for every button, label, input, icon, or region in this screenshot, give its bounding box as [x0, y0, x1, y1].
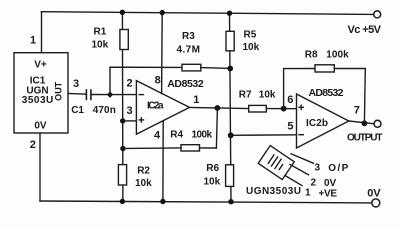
svg-text:OUTPUT: OUTPUT: [347, 132, 383, 143]
svg-text:3503U: 3503U: [22, 95, 54, 106]
junction dot pin4 rail: [160, 199, 165, 204]
resistor R6: [226, 165, 234, 187]
wire pin4 to 0V rail: [162, 121, 164, 202]
svg-text:0V: 0V: [34, 121, 47, 132]
svg-text:2: 2: [311, 178, 317, 189]
wire R4 right: [200, 147, 217, 149]
junction dot IC2a +input node: [120, 118, 125, 123]
terminal OUTPUT: [374, 120, 381, 127]
op-amp IC2b: [297, 94, 349, 148]
svg-text:5: 5: [287, 121, 293, 133]
junction dot R1 top rail: [120, 10, 125, 15]
capacitor C1: [86, 89, 91, 100]
svg-text:470n: 470n: [93, 105, 116, 116]
svg-text:R3: R3: [182, 31, 195, 42]
terminal 0V: [372, 199, 380, 207]
sensor package UGN3503U inset: [258, 146, 294, 180]
svg-text:UGN3503U: UGN3503U: [246, 186, 301, 197]
junction dot output R8: [362, 120, 368, 126]
resistor R5: [226, 31, 234, 51]
wire R8 right leg: [334, 69, 365, 124]
svg-text:C1: C1: [71, 105, 84, 116]
svg-text:1: 1: [305, 188, 311, 199]
lead pin1 +VE: [285, 176, 302, 186]
wire IC1 pin1 to +5V rail: [41, 12, 43, 53]
svg-text:0V: 0V: [367, 187, 381, 199]
wire bottom 0V rail: [40, 201, 371, 203]
wire IC2b output to terminal: [349, 121, 374, 124]
resistor R7: [249, 105, 267, 112]
junction dot pin6 node: [281, 106, 287, 112]
wire divider to IC2a pin3: [123, 120, 137, 122]
junction dot R5 top rail: [227, 11, 232, 16]
svg-text:10k: 10k: [135, 178, 152, 189]
svg-text:R5: R5: [244, 29, 257, 40]
svg-text:8: 8: [155, 74, 161, 86]
svg-text:O/P: O/P: [328, 163, 348, 174]
svg-text:R6: R6: [206, 163, 219, 174]
svg-text:100k: 100k: [192, 130, 213, 141]
wire R4 left to divider: [123, 147, 181, 150]
resistor R1: [120, 30, 128, 50]
wire R3 right to bias vertical: [201, 67, 231, 70]
wire R8 left leg: [284, 69, 315, 109]
svg-text:AD8532: AD8532: [167, 78, 204, 90]
svg-text:3: 3: [73, 78, 79, 90]
svg-text:IC2b: IC2b: [306, 118, 328, 129]
wire top +5V rail: [42, 12, 374, 15]
junction dot R2 bottom rail: [120, 199, 125, 204]
wire R5-R6 bias vertical: [230, 13, 232, 202]
svg-text:+VE: +VE: [319, 188, 338, 199]
svg-text:10k: 10k: [243, 42, 260, 53]
svg-text:7: 7: [354, 105, 360, 117]
junction dot pin8 rail: [160, 10, 165, 15]
svg-text:R1: R1: [94, 26, 107, 37]
svg-text:R4: R4: [170, 130, 183, 141]
wire IC2a output to R7: [190, 107, 249, 108]
wire IC1 pin2 to 0V rail: [39, 133, 41, 201]
svg-text:1: 1: [30, 35, 36, 47]
junction dot R3-bias node: [227, 66, 233, 72]
junction dot pin5-bias node: [228, 132, 234, 138]
wire node A to IC2a pin2: [110, 94, 136, 96]
op-amp IC2a: [136, 81, 189, 135]
svg-text:4.7M: 4.7M: [177, 44, 201, 55]
lead pin3 O/P: [291, 154, 314, 164]
junction dot R6 bottom rail: [228, 199, 233, 204]
svg-text:100k: 100k: [326, 50, 349, 61]
svg-text:10k: 10k: [204, 177, 221, 188]
svg-text:V+: V+: [34, 60, 47, 71]
wire R7 right to IC2b pin6: [266, 108, 296, 110]
svg-text:1: 1: [193, 94, 199, 106]
wire pin8 to +5V rail: [161, 13, 164, 94]
IC1 UGN3503U sensor box: [14, 53, 68, 133]
wire IC1 pin3 to C1: [68, 92, 86, 95]
svg-text:10k: 10k: [259, 90, 276, 101]
svg-text:3: 3: [315, 163, 321, 174]
resistor R8: [315, 65, 334, 72]
junction dot R4 tap on divider: [120, 146, 125, 151]
junction dot output R4 tap: [215, 105, 221, 111]
svg-text:AD8532: AD8532: [309, 87, 344, 99]
wire R1-R2 divider vertical: [121, 12, 124, 201]
svg-text:2: 2: [127, 78, 133, 90]
svg-text:OUT: OUT: [54, 81, 64, 101]
svg-text:R2: R2: [137, 165, 150, 176]
svg-text:6: 6: [287, 94, 293, 106]
wire bias to IC2b pin5: [231, 134, 297, 137]
wire R4 tap vertical: [216, 108, 217, 148]
resistor R3: [182, 64, 201, 71]
svg-text:Vc +5V: Vc +5V: [348, 24, 382, 36]
svg-text:10k: 10k: [92, 39, 109, 50]
terminal Vc +5V: [374, 11, 381, 18]
wire C1 to node A: [91, 94, 110, 96]
resistor R2: [118, 165, 126, 185]
lead pin2 0V: [290, 165, 309, 175]
svg-text:0V: 0V: [324, 178, 337, 189]
node A junction diamond: [107, 91, 113, 98]
svg-text:2: 2: [30, 139, 36, 151]
svg-text:IC2a: IC2a: [147, 101, 164, 112]
svg-text:R7: R7: [239, 90, 252, 101]
svg-text:R8: R8: [305, 50, 318, 61]
svg-text:4: 4: [154, 129, 161, 141]
svg-text:3: 3: [127, 105, 133, 117]
resistor R4: [181, 145, 200, 151]
wire node A up and right to R3 left: [110, 67, 182, 94]
